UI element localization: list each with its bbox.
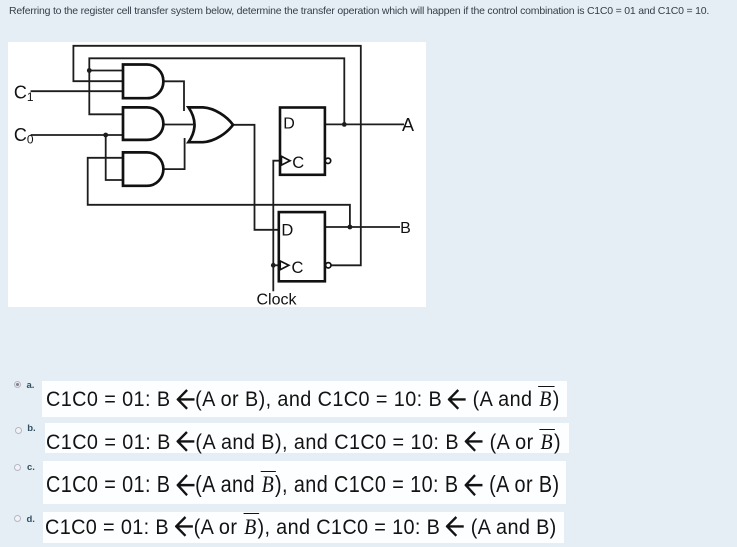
wire: Clock line to FF1 and FF2 — [273, 161, 280, 292]
question text — [9, 5, 709, 17]
wire: C1 input line — [31, 90, 123, 92]
label d — [27, 515, 35, 525]
flip-flop U2 (register B) body — [279, 212, 325, 281]
node B feedback junction dot — [348, 225, 353, 230]
radio button a (selected) — [14, 381, 21, 388]
svg-text:C: C — [292, 259, 304, 277]
clock wedge of U2 — [280, 261, 289, 270]
wire: A output from FF1 Q — [325, 123, 404, 125]
answer strip c — [43, 461, 566, 504]
node A feedback junction dot — [342, 122, 347, 127]
node clock junction dot — [271, 263, 276, 268]
svg-text:A: A — [402, 115, 414, 135]
wire: B feedback to AND3 input — [88, 158, 350, 227]
wire: C0 input line to AND2 and AND3 — [31, 135, 123, 180]
radio button d — [14, 515, 21, 522]
radio button c — [14, 464, 21, 471]
svg-text:D: D — [281, 222, 293, 240]
node junction dot on C0 line — [103, 133, 108, 138]
svg-text:B: B — [400, 220, 411, 237]
and-gate AND1 — [123, 65, 163, 99]
svg-text:D: D — [283, 116, 295, 133]
wire: AND2 output to OR input — [163, 124, 193, 126]
answer strip a — [42, 381, 567, 417]
or-gate OR1 — [189, 107, 234, 142]
Qbar bubble of U1 — [325, 158, 330, 163]
flip-flop U1 (register A) body — [280, 108, 325, 175]
svg-text:C: C — [292, 154, 304, 172]
wire: AND1 output to OR input — [163, 81, 184, 111]
Qbar bubble of U2 — [326, 263, 331, 268]
wire: OR output to FF2 D input — [233, 125, 279, 230]
white diagram panel — [8, 42, 426, 307]
svg-text:Clock: Clock — [257, 291, 298, 308]
radio button b — [15, 427, 22, 434]
label a — [27, 381, 35, 391]
label b — [27, 424, 35, 434]
wire: B output from FF2 Q — [325, 226, 400, 228]
clock wedge of U1 — [281, 156, 290, 165]
answer strip d — [43, 512, 564, 543]
label c — [27, 463, 35, 473]
answer strip b — [45, 423, 569, 453]
and-gate AND3 — [123, 152, 163, 185]
and-gate AND2 — [123, 107, 163, 139]
wire: B-bar feedback from FF2 Qbar bubble to AND1 input — [73, 46, 360, 265]
wire: A feedback to AND1 and AND2 inputs — [89, 58, 344, 124]
wire: AND3 output to OR input — [163, 138, 185, 169]
node junction dot on A feedback at AND1 input — [87, 68, 92, 73]
